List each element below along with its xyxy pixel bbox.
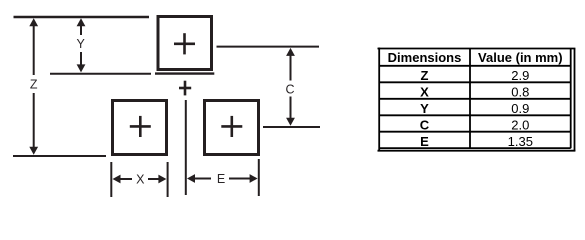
label Y (77, 37, 86, 51)
vertical centerline (E left datum) (185, 100, 187, 195)
svg-text:X: X (420, 85, 429, 100)
svg-text:Dimensions: Dimensions (388, 50, 462, 65)
svg-text:Y: Y (420, 101, 429, 116)
svg-text:C: C (285, 83, 294, 97)
X right extension line (167, 162, 169, 197)
table row Z (421, 68, 530, 83)
label E (217, 172, 225, 186)
svg-text:Value (in mm): Value (in mm) (478, 50, 563, 65)
table inner bottom border (379, 147, 571, 149)
table row X (420, 85, 529, 100)
svg-text:0.8: 0.8 (511, 85, 529, 100)
pad P1 (top square) (158, 17, 212, 70)
Z lower reference line (bottom pad bottom datum) (13, 155, 106, 157)
top reference line (Z/Y upper datum) (14, 16, 150, 19)
svg-text:E: E (420, 134, 429, 149)
dimension C (vertical, double arrow) (286, 48, 295, 126)
svg-text:2.9: 2.9 (511, 68, 529, 83)
svg-text:Z: Z (30, 78, 38, 92)
dimension Z (vertical, double arrow) (29, 18, 38, 154)
svg-text:1.35: 1.35 (508, 134, 533, 149)
pad P3 (bottom-right square) (205, 101, 259, 155)
table row C (420, 118, 530, 133)
center mark of pad P2 (130, 116, 151, 137)
C upper reference line (from top pad center) (217, 46, 320, 48)
X left extension line (110, 162, 112, 197)
label X (136, 173, 145, 187)
table header: Dimensions (388, 50, 462, 65)
label Z (30, 78, 38, 92)
dimension X (horizontal, double arrow) (113, 175, 167, 184)
table row Y (420, 101, 529, 116)
svg-text:C: C (420, 118, 430, 133)
C lower reference line (from right pad center) (263, 126, 320, 128)
svg-text:2.0: 2.0 (511, 118, 529, 133)
svg-text:0.9: 0.9 (511, 101, 529, 116)
origin cross mark (below top pad) (179, 81, 191, 96)
center mark of pad P1 (174, 33, 195, 54)
table header: Value (in mm) (478, 50, 563, 65)
Y datum line under top pad (155, 72, 214, 74)
svg-text:Y: Y (77, 37, 86, 51)
center mark of pad P3 (221, 116, 242, 137)
label C (285, 83, 294, 97)
svg-text:E: E (217, 172, 225, 186)
Y lower reference line (top pad bottom datum) (50, 73, 151, 75)
svg-text:X: X (136, 173, 145, 187)
pad P2 (bottom-left square) (113, 101, 167, 155)
table outer frame (378, 48, 576, 152)
E right extension line (258, 159, 260, 196)
table column divider (469, 49, 471, 149)
dimension E (horizontal, double arrow) (187, 174, 258, 183)
svg-text:Z: Z (421, 68, 429, 83)
table row dividers (379, 66, 571, 132)
table row E (420, 134, 533, 149)
dimension Y (vertical, double arrow) (77, 18, 86, 72)
table inner right border (570, 49, 572, 149)
